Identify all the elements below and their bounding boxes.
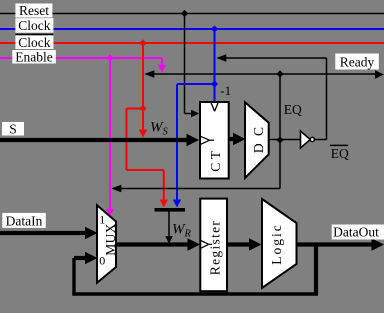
- svg-text:Register: Register: [208, 220, 223, 275]
- svg-text:Clock: Clock: [18, 18, 50, 33]
- svg-text:Enable: Enable: [15, 49, 52, 64]
- svg-text:EQ: EQ: [284, 102, 302, 117]
- svg-text:Logic: Logic: [269, 223, 284, 265]
- svg-text:EQ: EQ: [331, 146, 349, 161]
- svg-text:DataOut: DataOut: [333, 225, 379, 240]
- svg-text:Reset: Reset: [19, 3, 49, 18]
- svg-text:S: S: [9, 121, 17, 136]
- svg-text:D C: D C: [251, 125, 266, 153]
- svg-text:C T: C T: [208, 150, 223, 172]
- svg-text:MUX: MUX: [103, 223, 118, 256]
- svg-text:DataIn: DataIn: [6, 214, 43, 229]
- svg-text:-1: -1: [220, 83, 231, 98]
- svg-text:Ready: Ready: [340, 55, 375, 70]
- svg-text:Clock: Clock: [18, 35, 50, 50]
